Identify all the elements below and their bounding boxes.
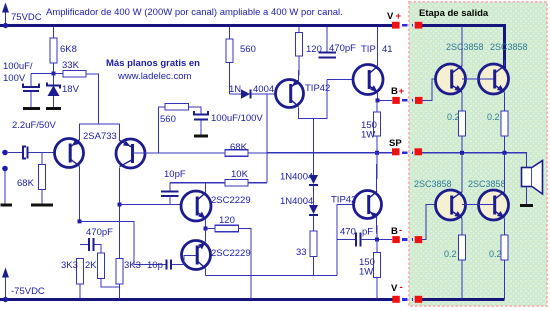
- svg-text:2K: 2K: [85, 260, 97, 271]
- svg-text:560: 560: [240, 44, 256, 55]
- svg-text:1W: 1W: [361, 130, 375, 141]
- svg-text:2SC2229: 2SC2229: [211, 195, 251, 206]
- wire Q9 collector stub: [504, 60, 506, 66]
- capacitor 10pF: [161, 169, 186, 205]
- svg-text:SP: SP: [389, 138, 402, 149]
- wire B+ into stage: [423, 79, 451, 100]
- svg-text:10K: 10K: [231, 169, 249, 180]
- wire SP line: [267, 152, 392, 154]
- svg-text:V: V: [391, 283, 398, 294]
- node SP junctions: [460, 151, 507, 155]
- transistor Q5 TIP42 top: [276, 80, 304, 108]
- capacitor 2.2uF input: [23, 147, 70, 159]
- wire Q3 base: [120, 204, 197, 206]
- wire Q4 emitter stub: [205, 229, 207, 242]
- input shield terminal: [2, 166, 8, 204]
- label Etapa de salida: [419, 8, 489, 19]
- ground: [31, 204, 53, 207]
- node SP: [375, 151, 379, 155]
- svg-text:18V: 18V: [62, 84, 80, 95]
- svg-text:470: 470: [340, 227, 356, 238]
- resistor 68K input: [17, 153, 46, 204]
- node B+: [376, 98, 380, 102]
- svg-text:2SC2229: 2SC2229: [211, 248, 251, 259]
- svg-text:33K: 33K: [62, 60, 80, 71]
- ground: [1, 204, 13, 207]
- svg-text:2SC3858: 2SC3858: [414, 179, 452, 189]
- svg-text:100uF/: 100uF/: [3, 61, 33, 72]
- ground: [23, 107, 40, 110]
- svg-text:3K3: 3K3: [61, 260, 78, 271]
- wire TIP41 collector: [377, 27, 379, 66]
- node SP pads: [389, 138, 422, 155]
- wire Q10 base link: [462, 204, 494, 206]
- resistor 150 1W top: [361, 100, 381, 152]
- svg-text:470pF: 470pF: [329, 43, 356, 54]
- resistor 33: [296, 231, 317, 276]
- resistor 0.2 bottom right: [489, 219, 508, 300]
- svg-text:B: B: [391, 86, 398, 97]
- transistor Q9 2SC3858: [479, 64, 509, 94]
- svg-text:0.2: 0.2: [447, 112, 460, 122]
- svg-text:V: V: [387, 11, 394, 22]
- wire Q2 collector: [119, 168, 121, 259]
- node B- pads: [391, 225, 422, 243]
- svg-text:100V: 100V: [3, 73, 26, 84]
- label 2SC3858 top pair: [446, 42, 528, 52]
- transistor Q7 TIP42 bottom: [354, 191, 382, 219]
- wire Q1 collector: [79, 167, 81, 222]
- transistor Q11 2SC3858: [479, 190, 509, 220]
- wire Q7 base branch: [337, 205, 368, 276]
- resistor 120 emitter: [206, 215, 252, 299]
- node C: [204, 227, 208, 231]
- -75VDC arrow: [2, 268, 45, 303]
- wire B- into stage: [422, 205, 450, 240]
- resistor 560 horizontal: [159, 104, 202, 154]
- transistor Q1 2SA733: [55, 139, 84, 168]
- resistor 0.2 top right: [487, 93, 508, 153]
- node 18V bias: [52, 72, 56, 76]
- wire Q7 collector to SP: [376, 153, 379, 191]
- label TIP42: [305, 83, 330, 94]
- svg-text:68K: 68K: [17, 178, 35, 189]
- svg-text:0.2: 0.2: [444, 249, 457, 259]
- transistor Q8 2SC3858: [436, 64, 466, 94]
- resistor 150 1W bottom: [359, 240, 381, 300]
- svg-text:2SC3858: 2SC3858: [468, 179, 506, 189]
- resistor 2K: [85, 253, 120, 287]
- ground speaker: [520, 204, 533, 207]
- svg-text:33: 33: [296, 247, 307, 258]
- transistor Q10 2SC3858: [436, 190, 466, 220]
- svg-text:1N4004: 1N4004: [280, 196, 313, 207]
- svg-text:68K: 68K: [230, 142, 248, 153]
- resistor 3K3 right: [116, 259, 141, 300]
- capacitor 470pF left: [80, 227, 113, 253]
- svg-text:10p: 10p: [147, 260, 163, 271]
- svg-text:-: -: [400, 282, 403, 293]
- resistor 560 vertical: [226, 27, 256, 94]
- wire SP into stage: [422, 153, 527, 168]
- svg-text:+: +: [396, 11, 402, 22]
- capacitor 470pF top: [319, 27, 357, 58]
- input label 2.2uF/50V: [12, 120, 56, 131]
- wire TIP41 base: [327, 79, 369, 81]
- transistor Q2 2SA733: [116, 139, 145, 168]
- node A: [78, 219, 82, 223]
- wire Q8 collector: [461, 26, 463, 66]
- wire feedback line: [132, 152, 267, 154]
- svg-text:2SA733: 2SA733: [83, 131, 117, 142]
- wire Q4 collector stub: [205, 269, 207, 276]
- wire bias node: [31, 73, 63, 75]
- svg-text:75VDC: 75VDC: [11, 12, 42, 23]
- svg-text:100uF/100V: 100uF/100V: [211, 113, 263, 124]
- site note: [106, 58, 200, 82]
- svg-text:6K8: 6K8: [60, 44, 77, 55]
- resistor 10K: [170, 169, 267, 186]
- svg-text:1W: 1W: [359, 267, 373, 278]
- svg-text:B: B: [391, 226, 398, 237]
- transistor Q4 2SC2229: [182, 241, 211, 270]
- wire lower bias line: [206, 275, 338, 277]
- wire tail: [80, 124, 120, 141]
- node B+ pads: [391, 86, 423, 104]
- transistor Q3 2SC2229: [181, 191, 211, 221]
- resistor 3K3 left: [61, 259, 84, 300]
- node V+ pads: [387, 11, 422, 29]
- svg-text:2.2uF/50V: 2.2uF/50V: [12, 120, 56, 131]
- svg-text:-: -: [399, 225, 402, 236]
- ground: [46, 107, 61, 110]
- svg-text:1N4004: 1N4004: [280, 172, 313, 183]
- node B: [118, 203, 122, 207]
- label TIP 41: [361, 44, 393, 55]
- node V- pads: [391, 282, 422, 303]
- svg-text:560: 560: [160, 114, 176, 125]
- title: [46, 7, 343, 18]
- svg-text:2SC3858: 2SC3858: [446, 42, 484, 52]
- svg-text:Etapa de salida: Etapa de salida: [419, 8, 489, 19]
- svg-text:pF: pF: [362, 227, 373, 238]
- label 2SC2229: [211, 195, 251, 206]
- wire Q11 collector: [504, 153, 506, 192]
- transistor Q6 TIP41: [353, 65, 383, 95]
- svg-text:2SC3858: 2SC3858: [490, 42, 528, 52]
- input terminal: [2, 150, 22, 156]
- output stage region (Etapa de salida): [409, 2, 547, 306]
- resistor 120 vertical: [296, 27, 322, 80]
- capacitor 10p: [80, 221, 197, 271]
- svg-text:+: +: [399, 86, 405, 97]
- label 2SC3858 bottom pair: [414, 179, 506, 189]
- wire 68K-10K junction branch: [266, 94, 268, 183]
- capacitor 470pF bottom: [337, 227, 392, 247]
- resistor 0.2 bottom left: [444, 219, 466, 300]
- svg-text:Amplificador de 400 W (200W p: Amplificador de 400 W (200W por canal) a…: [46, 7, 343, 18]
- +75VDC arrow: [2, 3, 42, 29]
- svg-text:-75VDC: -75VDC: [11, 286, 45, 297]
- diode D1 1N4004: [229, 84, 290, 99]
- svg-text:41: 41: [382, 44, 393, 55]
- svg-text:470pF: 470pF: [86, 227, 113, 238]
- diode D3 1N4004: [280, 186, 318, 232]
- svg-text:4004: 4004: [253, 84, 274, 95]
- capacitor 100uF/100V mid: [194, 111, 263, 135]
- resistor 6K8: [50, 27, 77, 74]
- wire Q3 emitter: [205, 220, 207, 229]
- label 2SA733: [83, 131, 117, 142]
- ground: [194, 135, 208, 138]
- svg-text:3K3: 3K3: [124, 260, 141, 271]
- svg-text:1N: 1N: [229, 84, 241, 95]
- diode D2 1N4004: [280, 119, 318, 186]
- V- rail: [0, 298, 505, 301]
- wire Q7 emitter to B-: [376, 218, 379, 240]
- resistor 0.2 top left: [447, 93, 466, 153]
- svg-text:Más planos gratis en: Más planos gratis en: [106, 58, 200, 69]
- svg-text:120: 120: [219, 215, 235, 226]
- zener 18V: [47, 75, 80, 107]
- wire TIP41 emitter to B+: [378, 93, 393, 100]
- wire Q3 collector stub: [205, 183, 207, 193]
- node B-: [375, 238, 379, 242]
- capacitor 100uF/100V left: [3, 61, 39, 107]
- wire Q8 base link: [462, 78, 494, 80]
- resistor 33K: [62, 60, 99, 124]
- svg-text:TIP42: TIP42: [331, 195, 356, 206]
- resistor 68K feedback: [225, 142, 248, 156]
- svg-text:0.2: 0.2: [489, 249, 502, 259]
- label 2SC2229: [211, 248, 251, 259]
- svg-text:www.ladelec.com: www.ladelec.com: [117, 71, 191, 82]
- label TIP42: [331, 195, 356, 206]
- V+ rail: [0, 26, 505, 71]
- wire Q5 collector to node: [299, 80, 328, 119]
- svg-text:TIP: TIP: [361, 44, 376, 55]
- svg-text:0.2: 0.2: [487, 112, 500, 122]
- wire Q10 collector: [461, 153, 463, 192]
- speaker: [522, 161, 543, 205]
- svg-text:10pF: 10pF: [164, 169, 186, 180]
